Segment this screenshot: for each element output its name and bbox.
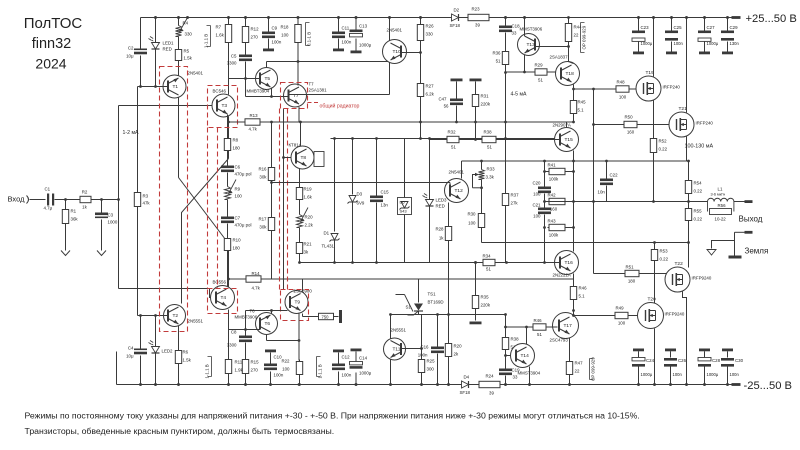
svg-text:T18: T18 [566,71,575,77]
capacitor C23 plate2 [632,38,645,41]
node T7 collector y61 [297,60,300,63]
wire C10 lead2 [270,353,272,364]
svg-text:R28: R28 [435,227,444,232]
wire input bus vertical [118,106,120,289]
wire T22 source [683,292,687,385]
wire C12 lead [338,372,340,385]
node bottom rail x355.5 [355,383,358,386]
svg-text:R35: R35 [481,295,490,300]
resistor R54 [688,179,690,181]
node C22 y160 [605,160,608,163]
svg-text:T6: T6 [265,321,271,327]
node y314 b [447,313,450,316]
node x505 y326 [504,326,507,329]
switch S1 [396,295,414,312]
capacitor C23 plate1 [632,31,645,34]
capacitor C18 [499,26,512,29]
wire R46h right [548,326,558,328]
capacitor C6 [221,166,234,169]
terminal +V dash [732,16,741,19]
wire R31 to y139 [475,122,477,140]
svg-text:1000μ: 1000μ [359,43,372,48]
wire T16 collector down [573,274,575,280]
wire T3 base line [119,105,218,107]
capacitor C30 plate2 [721,358,734,361]
wire R12 top [245,18,247,27]
svg-text:ОР 099-929: ОР 099-929 [582,25,587,49]
wire R16 to R17 [271,183,273,217]
node top rail x338 [337,16,340,19]
wire feedback bottom [137,207,139,316]
bracket R11 voltage [208,357,212,377]
svg-text:R46: R46 [579,286,588,291]
transistor T7 [284,84,307,107]
svg-text:1000μ: 1000μ [359,371,372,376]
capacitor C9 [262,32,275,35]
svg-text:R19: R19 [304,187,313,192]
wire x505 down [505,73,507,139]
resistor R31 [475,93,477,95]
arrowhead R33 wiper [475,173,479,177]
svg-text:1-1.1 В: 1-1.1 В [204,364,209,378]
svg-text:S1: S1 [406,305,412,310]
wire T21 source [686,137,688,162]
svg-text:0.22: 0.22 [660,257,669,262]
wire R21 to y262 [299,256,301,263]
capacitor C25 plate1 [665,31,678,34]
terminal R31 top [470,79,482,82]
svg-text:R17: R17 [258,217,267,222]
node bottom rail x654 [653,383,656,386]
terminal C27 [699,52,710,55]
svg-text:RED: RED [163,47,172,52]
svg-text:C30: C30 [735,358,744,363]
resistor R21 [299,241,301,243]
svg-text:C10: C10 [274,355,283,360]
svg-text:3.3k: 3.3k [486,175,495,180]
svg-text:100: 100 [533,192,541,197]
resistor R37 [505,192,507,194]
svg-text:TS1: TS1 [428,292,437,297]
wire R17 to y279 [271,233,273,280]
wire D3 col top [352,139,354,195]
wire R1 top lead [65,200,67,208]
svg-text:270: 270 [251,368,259,373]
wire R25 to rail [421,375,423,385]
transistor T18 [556,62,580,86]
svg-text:5.1: 5.1 [578,108,585,113]
terminal C23 [633,52,644,55]
node bottom rail x245 [244,383,247,386]
svg-text:R11: R11 [235,360,243,365]
svg-text:5.1: 5.1 [579,294,586,299]
node LED1 rail [154,16,157,19]
wire C9 lead2 [268,39,270,49]
resistor R41 [548,171,550,173]
node input bus junction [117,198,120,201]
wire T16 base [554,262,560,264]
node bottom rail x505 [504,383,507,386]
wire R7 top lead [228,18,230,25]
resistor R46 [573,285,575,287]
svg-text:R14: R14 [252,271,261,276]
svg-text:1k: 1k [82,205,87,210]
wire T6 collector down [266,335,268,341]
svg-text:100n: 100n [418,353,428,358]
svg-text:SF18: SF18 [460,390,471,395]
bracket R22 voltage [317,357,321,377]
svg-text:1k: 1k [439,236,444,241]
wire T6 base col [245,311,247,336]
node y160 out [687,160,690,163]
node C18 rail [504,16,507,19]
svg-text:R22: R22 [281,359,290,364]
wire C11 lead2 [338,39,340,49]
wire R26-R27 [420,43,422,83]
wire T12 emitter up [461,161,463,179]
terminal -V dash [732,383,741,386]
wire C10 lead [270,372,272,385]
wire R46 down [573,302,575,311]
wire T15 collector down [573,151,575,162]
svg-text:RED: RED [436,204,445,209]
svg-text:общий радиатор: общий радиатор [320,103,360,110]
svg-text:R20: R20 [305,215,314,220]
svg-text:160: 160 [627,130,635,135]
node bottom rail x140 [139,383,142,386]
wire R32 left [430,139,446,141]
wire R30 to y242 [481,230,483,243]
node y201 out [687,200,690,203]
svg-text:100n: 100n [342,40,352,45]
resistor R48 [615,88,617,90]
resistor R51 [624,273,626,275]
svg-text:R38: R38 [511,337,520,342]
node R41 right [572,170,575,173]
ground C3 [97,247,106,256]
svg-text:LED3: LED3 [436,198,448,203]
svg-text:R36: R36 [492,51,501,56]
node R33 wiper join [480,186,483,189]
svg-text:BT169D: BT169D [428,300,444,305]
wire y94 line [289,94,390,96]
resistor R17 [271,216,273,218]
wire y340 line [267,340,300,342]
capacitor C20 [538,187,551,190]
wire C11 lead [338,18,340,32]
svg-text:D3: D3 [357,192,363,197]
svg-text:T16: T16 [565,260,574,266]
capacitor C4 [134,349,147,351]
wire R20 to R21 [299,228,301,241]
svg-text:Земля: Земля [745,247,769,256]
svg-text:C15: C15 [381,190,390,195]
svg-text:TL431: TL431 [322,244,335,249]
node C24 rail [637,383,640,386]
wire T14 collector up [526,327,528,345]
svg-text:0.22: 0.22 [694,217,703,222]
wire C4 col [140,316,142,349]
node C30 rail [726,383,729,386]
wire R10 to T4 emitter [227,253,229,289]
svg-text:C12: C12 [342,355,351,360]
resistor R36 [505,50,507,52]
wire C47 lead [456,82,458,99]
wire LED2 cathode [155,354,157,385]
wire R43 right [567,227,574,229]
terminal C14 [351,349,362,352]
node T21 rail [685,16,688,19]
svg-text:R48: R48 [616,80,625,85]
terminal C12 [333,350,344,353]
svg-text:2N5551: 2N5551 [391,328,407,333]
node top rail x704 [703,16,706,19]
node y201 d [652,200,655,203]
node D3 y138 [351,137,354,140]
node T6 base [244,328,247,331]
resistor R22 [299,360,301,362]
svg-text:330: 330 [426,32,434,37]
wire cross T1-T4 diagonal [179,178,229,244]
wire R9 to C7 [227,200,229,217]
svg-text:R4: R4 [183,21,189,26]
svg-text:T3: T3 [222,103,228,109]
svg-text:R15: R15 [251,360,260,365]
terminal C29 [722,52,733,55]
svg-text:R2: R2 [82,190,88,195]
node R31 y121 [474,121,477,124]
node top rail x389 [388,16,391,19]
transistor T17 [553,313,579,339]
node T10 base R26 [419,51,422,54]
node C27 rail [703,16,706,19]
node bottom rail x569 [568,383,571,386]
LED LED2 [152,347,160,354]
wire T15 emitter top [566,122,568,128]
node x593 R50 [592,123,595,126]
wire R22 to rail [299,377,301,385]
resistor R5 [178,48,180,50]
svg-text:C2: C2 [128,46,134,51]
node D3 y262 [351,261,354,264]
svg-text:R47: R47 [575,361,584,366]
node T12 base R16R17 [270,181,273,184]
node R47 rail [568,383,571,386]
svg-text:51: 51 [487,145,492,150]
node T7 base [270,95,273,98]
wire R41 left [545,171,548,173]
svg-text:1.6k: 1.6k [304,195,313,200]
wire C13 lead [355,18,357,30]
svg-text:R9: R9 [235,187,241,192]
wire C1 to R2 [55,199,79,201]
wire C18 to R36 [505,33,507,51]
resistor R46h [532,326,534,328]
wire T13 emitter up [524,18,526,37]
wire T19 source [653,101,655,138]
wire T13 base line [535,46,569,48]
node D1 y262 [333,261,336,264]
capacitor C8 [239,336,252,339]
svg-text:1000μ: 1000μ [707,372,719,377]
resistor R34 [482,262,484,264]
node R21 y262 [298,261,301,264]
resistor R15 [245,358,247,360]
wire TS1 bottom [418,311,420,315]
wire R45 down [573,116,575,123]
svg-text:T4: T4 [221,295,227,301]
resistor R23 [467,17,469,19]
svg-text:R30: R30 [467,212,476,217]
node bottom rail x638 [637,383,640,386]
resistor R30 [481,212,483,214]
svg-text:IRFP240: IRFP240 [696,121,714,126]
wire T11 collector up [390,315,392,339]
wire C13 lead2 [355,39,357,51]
wire C30 lead [727,367,729,385]
svg-text:MMST3906: MMST3906 [520,27,543,32]
resistor R50 [623,124,625,126]
bracket R7 voltage [207,26,211,47]
svg-text:2N5401: 2N5401 [449,170,465,175]
wire R22 top lead [298,341,300,361]
wire T5 emitter to T7 base [271,88,273,97]
terminal C24 [633,349,644,352]
svg-text:180: 180 [233,146,241,151]
wire T9 collector down [298,313,300,341]
svg-text:R50: R50 [624,115,633,120]
wire T18 emitter down [573,85,575,100]
svg-text:D2: D2 [454,8,460,13]
bracket R18 voltage [306,23,310,46]
svg-text:R52: R52 [659,139,668,144]
svg-text:2SA1837: 2SA1837 [550,55,569,60]
svg-text:C20: C20 [532,181,541,186]
wire T18 collector top [569,62,574,64]
svg-text:R55: R55 [694,209,703,214]
svg-text:100: 100 [468,221,476,226]
wire input to C1 [30,199,46,201]
svg-text:100: 100 [618,321,626,326]
wire C20 to y201 [544,194,546,208]
wire R51 to T22 [641,273,674,275]
wire T21 drain [686,18,688,113]
svg-text:КТ814: КТ814 [289,143,302,148]
svg-text:30k: 30k [259,225,267,230]
capacitor C7 [221,217,234,220]
svg-text:1-1.1 В: 1-1.1 В [203,34,208,48]
svg-text:LED2: LED2 [162,349,174,354]
resistor R33 (trimmer) [479,170,485,180]
svg-text:T8: T8 [301,155,307,161]
wire bus y279 [303,278,574,280]
wire C18 lead [505,18,507,26]
node C28 rail [703,383,706,386]
thermal rect T8 [314,152,324,167]
svg-text:R38: R38 [483,130,492,135]
svg-text:2SC4793: 2SC4793 [550,338,569,343]
wire C22 bottom [606,186,608,202]
svg-text:R27: R27 [426,84,435,89]
wire T3 emitter down [228,117,230,159]
wire R36 to y73 [505,67,507,73]
svg-text:IRFP240: IRFP240 [663,85,681,90]
svg-text:R34: R34 [482,254,491,259]
wire T8 collector up [300,122,302,147]
capacitor C29 plate2 [721,38,734,41]
wire C7 to R10 [227,224,229,237]
node C19 rail [504,383,507,386]
wire C21 down [544,215,546,263]
wire C28 lead2 [704,351,706,357]
node C12 rail [337,383,340,386]
wire T7 base line [246,96,288,98]
wire R4 top lead [178,18,180,26]
resistor R53 [654,248,656,250]
wire R48 to T19 [631,88,645,90]
diode D4 [462,381,469,388]
svg-text:R33: R33 [487,167,496,172]
thermal box T1 T2 [160,67,188,332]
svg-text:1.6k: 1.6k [216,33,225,38]
MOSFET T19 [636,76,661,101]
wire C9 lead [268,18,270,32]
node top rail x727 [726,16,729,19]
terminal C9 [263,49,274,52]
svg-text:IRFP9240: IRFP9240 [692,276,712,281]
node T2 base LED2 [154,314,157,317]
wire T9 to R750 [302,314,304,317]
transistor T8 [291,146,314,169]
node R22 rail [298,383,301,386]
svg-text:470μ pol: 470μ pol [235,172,252,177]
wire y262 to T16 base [497,262,554,264]
node T11 y314 [389,313,392,316]
wire R55 top [688,202,690,208]
node x593 R48 [592,88,595,91]
wire C28 lead [704,367,706,385]
capacitor C12 [332,364,345,367]
svg-text:C22: C22 [610,173,619,178]
svg-text:22: 22 [575,369,580,374]
resistor R52 [653,137,655,139]
svg-text:C3: C3 [108,213,114,218]
wire C6 to R9 [227,173,229,187]
resistor R20b [448,342,450,344]
resistor R11 [228,358,230,360]
svg-text:C24: C24 [646,358,655,363]
node R13 left [227,121,230,124]
wire R15 to rail [245,376,247,385]
node R41 left [543,170,546,173]
svg-text:10μ: 10μ [126,54,134,59]
svg-text:C5: C5 [231,54,237,59]
capacitor C47 [450,99,463,102]
wire R1 to ground [65,226,67,247]
transistor T9 [285,291,308,314]
wire D6 col top [404,139,406,198]
svg-text:2N5551: 2N5551 [188,319,204,324]
node R49 x573 [572,314,575,317]
wire LED1 anode [155,18,157,43]
resistor R7 [228,23,230,25]
diode D1 (TL431) [331,234,338,241]
svg-text:2SA1381: 2SA1381 [309,88,328,93]
transistor T3 [212,94,235,117]
resistor R19 [299,186,301,188]
resistor R18 [297,23,299,25]
wire T3 collector [228,79,230,95]
